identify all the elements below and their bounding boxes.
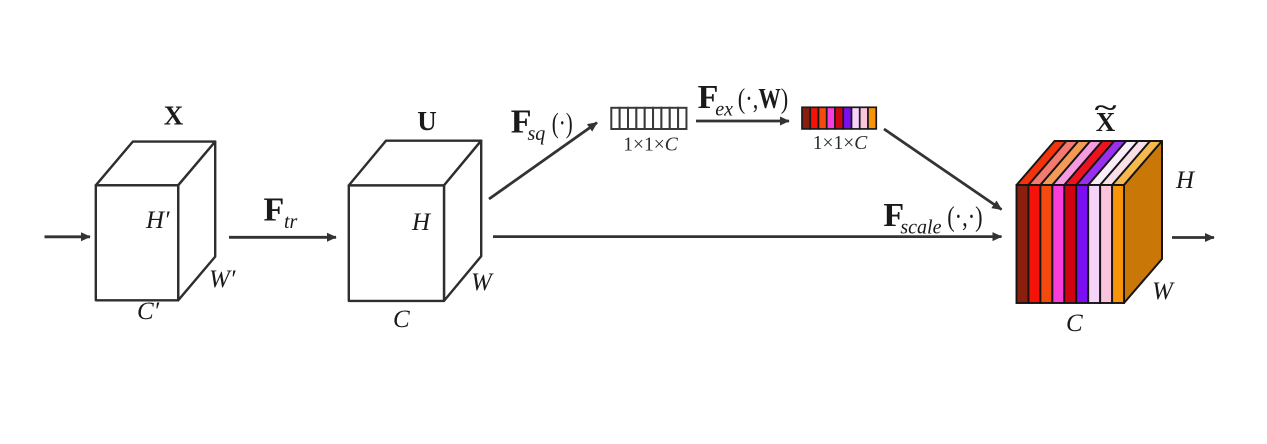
output arrow: [1172, 236, 1214, 239]
cube U front face: [349, 185, 444, 301]
F_scale long arrow: [493, 235, 1002, 238]
svg-text:(·,·): (·,·): [947, 202, 982, 233]
cube X right face: [178, 142, 215, 301]
svg-text:scale: scale: [900, 216, 941, 238]
svg-text:(·): (·): [552, 109, 573, 140]
F_ex arrow: [696, 120, 789, 123]
svg-text:W′: W′: [209, 266, 236, 293]
svg-text:F: F: [264, 192, 285, 229]
svg-text:H′: H′: [145, 207, 170, 234]
svg-text:C: C: [393, 306, 410, 333]
F_sq diagonal arrow: [489, 123, 597, 199]
cube X top face: [96, 142, 215, 186]
svg-text:1×1×C: 1×1×C: [623, 135, 679, 156]
svg-text:tr: tr: [284, 211, 298, 233]
cube X front face: [96, 185, 178, 300]
svg-text:1×1×C: 1×1×C: [813, 133, 869, 154]
svg-text:ex: ex: [715, 98, 733, 120]
svg-text:C: C: [1066, 310, 1083, 337]
scale diagonal arrow: [884, 129, 1002, 210]
svg-text:sq: sq: [528, 123, 546, 145]
svg-text:W: W: [1152, 278, 1175, 305]
svg-text:X: X: [164, 101, 184, 131]
input arrow: [45, 235, 91, 238]
svg-text:C′: C′: [137, 298, 160, 325]
cube U top face: [349, 141, 481, 186]
svg-text:(·,W): (·,W): [738, 84, 788, 115]
svg-text:~: ~: [1095, 94, 1117, 122]
excitation bar 1x1xC (colored cells): [802, 107, 876, 129]
svg-text:U: U: [417, 106, 437, 136]
F_tr arrow: [229, 236, 336, 239]
svg-text:H: H: [411, 209, 432, 236]
scaled cube right face: [1124, 141, 1162, 303]
scaled cube X~ top face stripes: [1017, 141, 1163, 185]
squeeze bar 1x1xC (white cells): [611, 108, 686, 129]
scaled cube front face stripes: [1017, 185, 1125, 303]
svg-text:W: W: [471, 269, 494, 296]
svg-text:H: H: [1175, 167, 1196, 194]
cube U right face: [444, 141, 481, 301]
